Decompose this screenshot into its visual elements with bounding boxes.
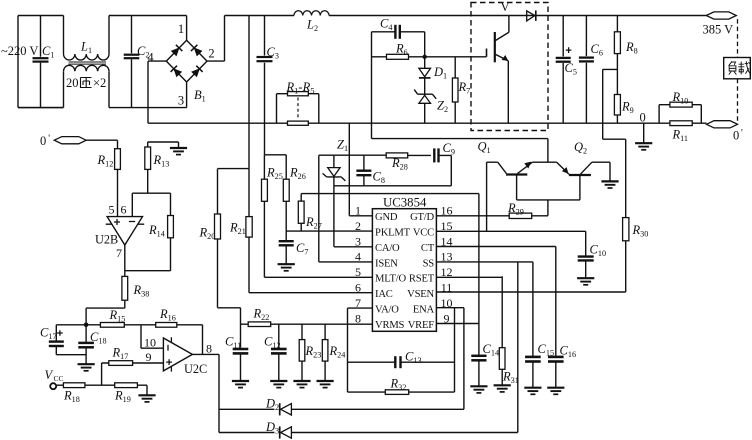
resistor R30 — [436, 218, 648, 292]
wire bridge pin2 to top rail — [207, 16, 225, 62]
U2B pin 6 label — [121, 203, 127, 217]
ground C12 — [270, 381, 287, 388]
svg-text:9: 9 — [146, 350, 152, 364]
svg-text:VREF: VREF — [408, 320, 435, 331]
svg-text:5: 5 — [109, 203, 115, 217]
ground R24 — [317, 381, 334, 388]
U2C pin 10 label — [144, 336, 156, 350]
capacitor C11 — [225, 324, 248, 380]
svg-text:20: 20 — [66, 76, 79, 90]
UC3854 pin 6 (IAC) — [355, 281, 393, 301]
wire CT branch — [436, 247, 555, 357]
UC3854 pin 8 (VRMS) — [355, 311, 405, 331]
svg-text:0: 0 — [733, 129, 739, 143]
bridge diode 2-1 — [191, 45, 203, 57]
wire top rail left segment — [109, 15, 187, 17]
wire bottom rail left — [18, 107, 187, 109]
UC3854 pin 2 (PKLMT) — [355, 219, 411, 239]
capacitor C18 — [78, 325, 106, 364]
wire gate drive return — [372, 139, 548, 162]
svg-text:CA/O: CA/O — [375, 243, 400, 254]
terminal 0' left — [40, 134, 86, 149]
wire base bus — [517, 199, 580, 201]
ground C7 — [278, 264, 295, 271]
wire return rail — [148, 122, 707, 124]
ground C18 — [78, 364, 95, 371]
svg-text:U2C: U2C — [184, 362, 207, 376]
capacitor C7 — [279, 241, 309, 264]
resistor R14 — [125, 193, 174, 271]
svg-text:GT/D: GT/D — [410, 212, 434, 223]
svg-text:×2: ×2 — [93, 76, 106, 90]
svg-text:ISEN: ISEN — [375, 258, 398, 269]
resistor R1-R5 top — [277, 92, 319, 96]
svg-text:4: 4 — [355, 250, 361, 264]
ground R31 — [494, 385, 511, 392]
ground 0 node — [635, 123, 652, 150]
resistor R22 — [241, 307, 373, 327]
label B1 — [194, 88, 206, 104]
ground R19 — [138, 395, 155, 402]
svg-text:16: 16 — [441, 204, 453, 218]
resistor R26 — [264, 123, 305, 240]
U2C pin 9 label — [146, 350, 152, 364]
inductor L2 — [294, 11, 329, 33]
svg-text:8: 8 — [355, 311, 361, 325]
bridge diode 3-2 — [191, 66, 203, 78]
resistor R25 — [262, 155, 373, 277]
UC3854 pin 15 (VCC) — [413, 219, 453, 239]
svg-text:10: 10 — [144, 336, 156, 350]
resistor R31 — [436, 276, 518, 385]
diode D1 — [419, 57, 447, 95]
ground C10 — [577, 278, 594, 285]
wire VA/O riser — [348, 308, 373, 392]
UC3854 pin 14 (CT) — [421, 234, 453, 254]
svg-text:0: 0 — [640, 111, 646, 125]
svg-text:U2B: U2B — [95, 233, 118, 247]
pin number 3 (bridge) — [178, 94, 184, 108]
wire GND riser — [349, 123, 372, 216]
UC3854 pin 5 (MLT/O) — [355, 265, 407, 285]
wire VREF branch — [436, 194, 479, 356]
transistor Q2 — [557, 140, 610, 200]
resistor R1-R5 bottom (on rail) — [288, 121, 309, 125]
pin number 1 (bridge) — [178, 22, 184, 36]
svg-text:ENA: ENA — [413, 305, 435, 316]
boost diode — [527, 10, 536, 21]
wire VCC rail — [436, 230, 585, 232]
wire 0' to R12 — [86, 140, 117, 149]
wire SS branch — [436, 262, 533, 433]
pin number 4 (bridge) — [147, 51, 154, 65]
resistor R21 — [229, 169, 372, 293]
resistor R17 — [102, 346, 164, 386]
resistor R24 — [322, 324, 345, 380]
label ~220 V — [1, 44, 38, 58]
svg-text:': ' — [741, 128, 743, 139]
resistor R16 — [141, 307, 203, 354]
svg-text:GND: GND — [375, 212, 398, 223]
zener Z1 — [323, 137, 373, 247]
svg-text:4: 4 — [147, 51, 154, 65]
svg-text:R1-R5: R1-R5 — [286, 80, 315, 96]
wire emitter bus — [532, 161, 556, 163]
wire ENA branch — [436, 308, 464, 410]
svg-text:VA/O: VA/O — [375, 305, 399, 316]
svg-text:0: 0 — [40, 134, 46, 148]
wire feedback tap — [603, 69, 626, 217]
svg-text:3: 3 — [178, 94, 184, 108]
capacitor C15 — [525, 342, 554, 387]
wire PKLMT pin2 — [286, 230, 372, 232]
wire U2C output — [192, 354, 219, 432]
bridge diode 3-4 — [171, 66, 183, 78]
svg-text:RSET: RSET — [409, 274, 435, 285]
wire Q1 collector to VCC — [486, 162, 488, 231]
resistor R19 — [114, 383, 147, 404]
dashed box switch — [471, 3, 548, 131]
UC3854 pin 10 (ENA) — [413, 296, 453, 316]
capacitor C2 — [124, 16, 150, 108]
resistor R9 — [614, 95, 633, 124]
svg-text:CT: CT — [421, 243, 435, 254]
capacitor C9 — [434, 141, 455, 186]
wire U2B minus node — [132, 193, 170, 216]
zener Z2 — [414, 90, 448, 124]
UC3854 pin 13 (SS) — [423, 250, 453, 270]
svg-text:VRMS: VRMS — [375, 320, 405, 331]
op-amp U2B — [95, 217, 144, 247]
resistor R13 — [145, 142, 179, 193]
wire bridge pin1 riser — [186, 16, 188, 41]
UC3854 pin 9 (VREF) — [408, 311, 450, 331]
resistor R7 — [452, 57, 470, 123]
resistor R10 — [659, 90, 701, 123]
capacitor C12 — [264, 324, 287, 380]
wire top rail right segment — [225, 15, 295, 17]
resistor R6 — [372, 42, 425, 60]
U2B pin 7 label — [116, 246, 122, 260]
IC U2 UC3854 body — [372, 196, 436, 332]
svg-text:11: 11 — [441, 281, 453, 295]
svg-text:MLT/O: MLT/O — [375, 274, 407, 285]
resistor R29 — [436, 200, 548, 219]
bridge diode 4-1 — [171, 45, 183, 57]
wire AC source loop — [18, 16, 64, 108]
wire boost rail — [329, 15, 706, 17]
capacitor C10 — [578, 231, 606, 277]
svg-text:IAC: IAC — [375, 289, 393, 300]
capacitor C8 — [356, 155, 385, 186]
svg-text:6: 6 — [121, 203, 127, 217]
junction dot C17/C18 node — [84, 323, 89, 328]
wire U2B output — [124, 245, 126, 276]
wire ISEN node — [319, 154, 386, 156]
inductor L1 (common-mode choke) — [64, 16, 110, 108]
UC3854 pin 4 (ISEN) — [355, 250, 398, 270]
transistor Q1 — [478, 140, 533, 200]
capacitor C1 — [33, 16, 55, 108]
diode D3 — [219, 420, 518, 439]
ground C16 — [547, 388, 564, 395]
U2C pin 8 label — [206, 342, 212, 356]
wire CA/O bus — [334, 185, 451, 187]
wire bridge pin4 to return rail — [148, 61, 166, 123]
resistor R8 — [614, 16, 637, 95]
resistor R18 — [56, 383, 114, 404]
capacitor C16 — [548, 344, 576, 388]
resistor R12 — [97, 149, 121, 217]
pin number 2 (bridge) — [208, 47, 214, 61]
svg-text:~220 V: ~220 V — [1, 44, 38, 58]
UC3854 pin 7 (VA/O) — [355, 296, 399, 316]
resistor R27 — [298, 194, 479, 232]
wire C4/R6 right and junction — [423, 32, 427, 59]
resistor R32 — [348, 377, 455, 395]
resistor R38 — [86, 276, 149, 324]
label V — [501, 0, 510, 14]
dashed link R1-R5 — [297, 98, 299, 120]
wire R15/R16 node to U2C minus — [141, 325, 163, 348]
dashed load link — [737, 19, 739, 121]
wire R1-R5 right riser / ISEN feed — [319, 94, 373, 262]
capacitor C13 — [348, 350, 455, 369]
ground C14 — [470, 386, 487, 393]
ground R13 — [170, 148, 187, 155]
capacitor C3 — [257, 16, 279, 124]
svg-text:VSEN: VSEN — [407, 289, 434, 300]
svg-text:UC3854: UC3854 — [383, 196, 427, 210]
ground R23 — [293, 381, 310, 388]
U2B pin 5 label — [109, 203, 115, 217]
UC3854 pin 16 (GT/D) — [410, 204, 452, 224]
svg-text:1: 1 — [178, 22, 184, 36]
svg-text:7: 7 — [116, 246, 122, 260]
svg-text:PKLMT: PKLMT — [375, 228, 411, 239]
terminal Vcc — [45, 368, 64, 389]
resistor R20 — [199, 169, 250, 325]
bridge B1 diamond — [166, 40, 207, 82]
op-amp U2C — [163, 337, 207, 376]
wire bridge pin3 to bottom rail — [186, 82, 188, 108]
svg-text:VCC: VCC — [413, 228, 434, 239]
svg-text:V: V — [501, 0, 510, 14]
label R1-R5 — [286, 80, 315, 96]
resistor R23 — [299, 324, 321, 380]
svg-text:2: 2 — [208, 47, 214, 61]
load box 负载 — [724, 58, 751, 79]
capacitor C5 — [556, 16, 577, 124]
terminal 385 V — [703, 12, 737, 37]
UC3854 pin 1 (GND) — [355, 204, 398, 224]
svg-text:': ' — [48, 134, 50, 145]
UC3854 pin 12 (RSET) — [409, 265, 453, 285]
diode D2 — [219, 397, 464, 416]
ground Q2 — [601, 181, 618, 188]
UC3854 pin 3 (CA/O) — [355, 234, 400, 254]
label 0 node — [640, 111, 646, 125]
svg-text:CC: CC — [54, 374, 64, 383]
resistor R15 — [86, 308, 141, 327]
capacitor C14 — [471, 342, 499, 386]
UC3854 pin 11 (VSEN) — [407, 281, 452, 301]
resistor R11 (on rail) — [670, 121, 692, 143]
svg-text:8: 8 — [206, 342, 212, 356]
capacitor C6 — [579, 16, 603, 124]
terminal 0' right — [707, 121, 744, 143]
ground C15 — [524, 388, 541, 395]
svg-text:SS: SS — [423, 258, 435, 269]
capacitor C17 — [40, 325, 86, 355]
label 20匝×2 — [66, 76, 106, 90]
capacitor C4 — [372, 17, 425, 39]
svg-text:385 V: 385 V — [703, 23, 734, 37]
wire IAC/VRMS tap — [248, 16, 250, 169]
wire R1-R5 left riser — [276, 94, 278, 124]
wire gate net left riser — [371, 32, 373, 139]
transistor V (IGBT) — [487, 16, 509, 124]
wire gate drive to V — [425, 56, 487, 58]
ground C11 — [232, 381, 249, 388]
wire C13/R32 right riser to ENA — [454, 308, 456, 392]
resistor R28 — [386, 153, 431, 172]
